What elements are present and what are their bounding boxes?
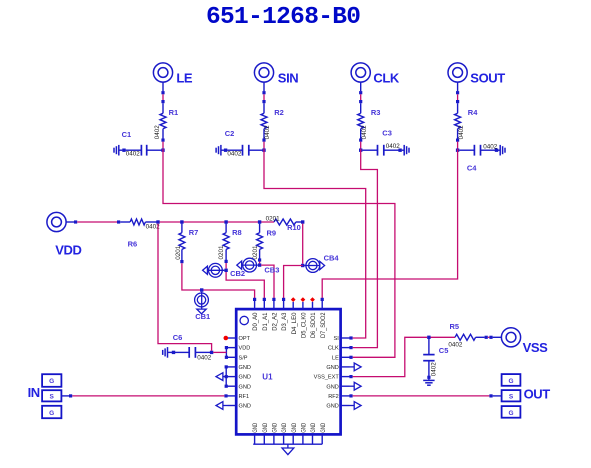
U1 right pin CLK xyxy=(341,347,350,349)
no-connect OPT xyxy=(224,336,229,341)
U1 left pin VDD xyxy=(228,347,237,349)
svg-text:GND: GND xyxy=(326,404,338,410)
wire VDD connector to R6 xyxy=(66,220,130,223)
svg-text:C6: C6 xyxy=(173,333,183,342)
capacitor C3 xyxy=(359,145,409,156)
svg-text:D7_SDO2: D7_SDO2 xyxy=(321,312,327,338)
connector IN G pad top xyxy=(42,374,61,387)
svg-text:0402: 0402 xyxy=(386,143,401,150)
svg-text:CB3: CB3 xyxy=(264,265,279,274)
svg-text:D1_A1: D1_A1 xyxy=(263,312,269,331)
svg-text:SI: SI xyxy=(334,336,340,342)
resistor R2 xyxy=(261,113,267,141)
node VDD/SP tie xyxy=(225,346,228,359)
wire RF1 xyxy=(69,394,228,397)
svg-text:U1: U1 xyxy=(262,373,273,382)
svg-text:GND: GND xyxy=(326,365,338,371)
wire C6 to VDD pin xyxy=(213,351,226,353)
capacitor C2 xyxy=(216,145,266,156)
wire net CLK to U1 xyxy=(353,149,378,348)
svg-text:D3_A3: D3_A3 xyxy=(282,312,288,331)
node VSS_EXT xyxy=(349,375,352,378)
wire R9 to D2_A2 xyxy=(258,262,274,299)
node CLK xyxy=(349,346,352,349)
wire R10 to D3_A3 xyxy=(284,224,305,298)
svg-text:0402: 0402 xyxy=(227,151,242,158)
svg-text:0201: 0201 xyxy=(252,245,259,260)
node LE xyxy=(349,356,352,359)
svg-text:0402: 0402 xyxy=(154,125,161,140)
svg-text:RF1: RF1 xyxy=(239,394,250,400)
testpoint CB2 xyxy=(203,263,225,277)
svg-text:R2: R2 xyxy=(274,108,284,117)
R8 bottom terminal xyxy=(225,249,228,263)
resistor R9 xyxy=(257,224,263,250)
U1 top pin D0_A0 xyxy=(253,298,256,309)
svg-text:GND: GND xyxy=(239,384,251,390)
U1 bottom pin GND xyxy=(302,434,304,444)
U1 bottom pin GND xyxy=(283,434,285,444)
svg-text:0402: 0402 xyxy=(483,144,498,151)
wire C5 to R5 xyxy=(431,336,456,338)
connector IN G pad bottom xyxy=(42,406,61,418)
svg-text:GND: GND xyxy=(282,422,288,432)
svg-text:VDD: VDD xyxy=(55,242,81,257)
U1 top pin D1_A1 xyxy=(263,298,266,309)
U1 left pin GND xyxy=(228,366,237,368)
U1 left pin RF1 xyxy=(228,395,237,397)
U1 right pin GND xyxy=(341,366,350,368)
connector J_CLK xyxy=(351,63,370,82)
resistor R10 xyxy=(274,219,304,225)
U1 top pin D4_LE0 xyxy=(291,297,296,309)
svg-text:GND: GND xyxy=(263,422,269,432)
U1 right pin GND xyxy=(341,385,350,387)
svg-text:0402: 0402 xyxy=(264,125,271,140)
U1 bottom pin GND xyxy=(321,434,323,444)
connector OUT G pad bottom xyxy=(502,406,521,418)
ground arrow GND right2 xyxy=(350,382,362,390)
svg-text:LE: LE xyxy=(332,355,339,361)
svg-text:SOUT: SOUT xyxy=(470,71,505,86)
connector J_VSS xyxy=(501,328,520,347)
capacitor C1 xyxy=(114,145,165,156)
svg-text:OPT: OPT xyxy=(239,336,251,342)
svg-text:GND: GND xyxy=(239,404,251,410)
U1 top pin D6_SDO1 xyxy=(310,297,315,309)
U1 bottom pin GND xyxy=(254,434,256,444)
wire VDD rail xyxy=(160,221,274,223)
U1 bottom pin GND xyxy=(292,434,294,444)
wire LE node xyxy=(162,142,164,149)
svg-text:SIN: SIN xyxy=(278,71,298,86)
wire net SOUT to U1 xyxy=(322,149,457,298)
wire SOUT node xyxy=(457,142,459,149)
U1 left pin OPT xyxy=(228,337,237,339)
node C5 xyxy=(427,336,430,339)
svg-text:651-1268-B0: 651-1268-B0 xyxy=(206,4,361,31)
svg-text:CB2: CB2 xyxy=(230,269,245,278)
svg-text:GND: GND xyxy=(253,422,259,432)
svg-text:VDD: VDD xyxy=(239,346,251,352)
U1 bottom pin GND xyxy=(312,434,314,444)
svg-text:D5_CLK0: D5_CLK0 xyxy=(302,312,308,338)
U1 pin1 mark xyxy=(240,316,248,324)
svg-text:0402: 0402 xyxy=(430,362,437,377)
svg-text:CLK: CLK xyxy=(373,71,400,86)
svg-text:GND: GND xyxy=(311,422,317,432)
resistor R6 xyxy=(130,219,160,225)
wire IN S pad xyxy=(61,395,69,397)
capacitor C5 xyxy=(423,339,434,385)
connector J_VDD xyxy=(47,212,66,231)
svg-text:R8: R8 xyxy=(232,228,242,237)
ground U1 xyxy=(282,444,294,454)
svg-text:0201: 0201 xyxy=(218,245,225,260)
op-amp U1 body xyxy=(236,309,340,434)
svg-text:R3: R3 xyxy=(371,108,381,117)
svg-text:CLK: CLK xyxy=(328,346,339,352)
wire OUT S pad xyxy=(493,395,502,397)
svg-text:C4: C4 xyxy=(467,164,477,173)
U1 right pin SI xyxy=(341,337,350,339)
ground arrow GND right1 xyxy=(350,363,362,371)
svg-text:IN: IN xyxy=(28,385,40,400)
wire CLK connector to R3 xyxy=(359,82,362,113)
wire VDD to C6 and U1 xyxy=(158,224,212,351)
ground bracket GND4-6 xyxy=(216,365,228,388)
resistor R8 xyxy=(223,224,229,250)
wire RF2 to OUT xyxy=(349,394,492,397)
testpoint CB3 xyxy=(237,258,258,272)
node SI xyxy=(349,336,352,339)
testpoint CB4 xyxy=(304,259,324,273)
svg-text:LE: LE xyxy=(176,71,193,86)
svg-text:C5: C5 xyxy=(439,346,449,355)
svg-text:S: S xyxy=(50,394,55,401)
svg-text:D0_A0: D0_A0 xyxy=(253,312,259,331)
wire R8 to D1_A1 xyxy=(224,263,264,298)
capacitor C4 xyxy=(456,145,505,156)
svg-text:R9: R9 xyxy=(267,228,277,237)
svg-text:GND: GND xyxy=(321,422,327,432)
node VDD-R9 xyxy=(258,220,261,223)
U1 top pin D3_A3 xyxy=(282,298,285,309)
connector J_LE xyxy=(153,63,172,82)
wire VSS_EXT to R5 xyxy=(353,337,428,376)
svg-text:C3: C3 xyxy=(382,128,392,137)
svg-text:C2: C2 xyxy=(225,129,235,138)
U1 top pin D2_A2 xyxy=(272,298,275,309)
svg-text:0402: 0402 xyxy=(448,341,463,348)
connector OUT G pad top xyxy=(502,374,521,386)
U1 bottom pin GND xyxy=(273,434,275,444)
U1 right pin GND xyxy=(341,405,350,407)
ground arrow GND8 left xyxy=(216,402,228,410)
capacitor C6 xyxy=(163,347,214,358)
svg-text:GND: GND xyxy=(273,422,279,432)
svg-text:C1: C1 xyxy=(122,130,132,139)
svg-text:0402: 0402 xyxy=(197,354,212,361)
wire R7 to D0_A0 xyxy=(182,263,255,298)
connector OUT S pad xyxy=(502,390,521,401)
resistor R1 xyxy=(160,113,166,141)
svg-text:S/P: S/P xyxy=(239,355,248,361)
svg-text:R1: R1 xyxy=(169,108,179,117)
connector IN S pad xyxy=(42,390,61,401)
U1 top pin D5_CLK0 xyxy=(301,297,306,309)
svg-text:R5: R5 xyxy=(450,322,460,331)
svg-text:GND: GND xyxy=(239,365,251,371)
ground arrow GND right3 xyxy=(350,402,362,410)
svg-text:CB4: CB4 xyxy=(324,254,340,263)
svg-text:GND: GND xyxy=(292,422,298,432)
resistor R7 xyxy=(179,224,185,250)
U1 left pin GND xyxy=(228,385,237,387)
svg-text:0402: 0402 xyxy=(126,151,141,158)
wire SOUT connector to R4 xyxy=(456,82,459,113)
svg-text:GND: GND xyxy=(302,422,308,432)
wire LE connector to R1 xyxy=(161,82,164,113)
svg-text:R10: R10 xyxy=(287,223,301,232)
U1 right pin LE xyxy=(341,356,350,358)
svg-text:G: G xyxy=(508,410,513,417)
svg-text:0402: 0402 xyxy=(458,125,465,140)
svg-text:GND: GND xyxy=(239,375,251,381)
svg-text:CB1: CB1 xyxy=(195,312,210,321)
svg-text:R4: R4 xyxy=(468,108,478,117)
testpoint CB1 xyxy=(195,288,209,314)
node VDD-R7 xyxy=(180,220,183,223)
U1 right pin RF2 xyxy=(341,395,350,397)
svg-text:RF2: RF2 xyxy=(328,394,339,400)
wire SIN connector to R2 xyxy=(262,82,265,113)
svg-text:R6: R6 xyxy=(128,240,138,249)
wire SIN node xyxy=(263,142,265,149)
wire CLK node xyxy=(360,142,362,149)
R7 bottom terminal xyxy=(180,249,183,263)
svg-text:GND: GND xyxy=(326,384,338,390)
svg-text:G: G xyxy=(508,378,513,385)
svg-text:0201: 0201 xyxy=(266,216,281,223)
U1 bottom pin GND xyxy=(263,434,265,444)
resistor R4 xyxy=(455,113,461,141)
svg-text:D2_A2: D2_A2 xyxy=(273,312,279,331)
R9 bottom terminal xyxy=(258,249,261,261)
connector J_SIN xyxy=(254,63,273,82)
resistor R3 xyxy=(358,113,364,141)
svg-text:OUT: OUT xyxy=(524,386,551,401)
connector J_SOUT xyxy=(448,63,467,82)
svg-text:S: S xyxy=(509,394,514,401)
wire GND bus xyxy=(253,443,322,445)
svg-text:G: G xyxy=(49,410,54,417)
U1 left pin GND xyxy=(228,376,237,378)
U1 left pin GND xyxy=(228,405,237,407)
svg-text:0201: 0201 xyxy=(175,245,182,260)
U1 top pin D7_SDO2 xyxy=(321,298,324,309)
U1 right pin VSS_EXT xyxy=(341,376,350,378)
node VDD-R8 xyxy=(224,220,227,223)
wire net SIN to U1 xyxy=(264,149,366,338)
svg-text:G: G xyxy=(49,378,54,385)
resistor R5 xyxy=(455,334,501,340)
svg-text:0402: 0402 xyxy=(361,125,368,140)
wire net LE to U1 xyxy=(163,149,395,357)
svg-text:R7: R7 xyxy=(189,228,199,237)
svg-text:VSS_EXT: VSS_EXT xyxy=(314,375,340,381)
svg-text:D6_SDO1: D6_SDO1 xyxy=(311,312,317,338)
svg-text:D4_LE0: D4_LE0 xyxy=(292,312,298,335)
svg-text:VSS: VSS xyxy=(523,340,549,355)
U1 left pin S/P xyxy=(228,356,237,358)
